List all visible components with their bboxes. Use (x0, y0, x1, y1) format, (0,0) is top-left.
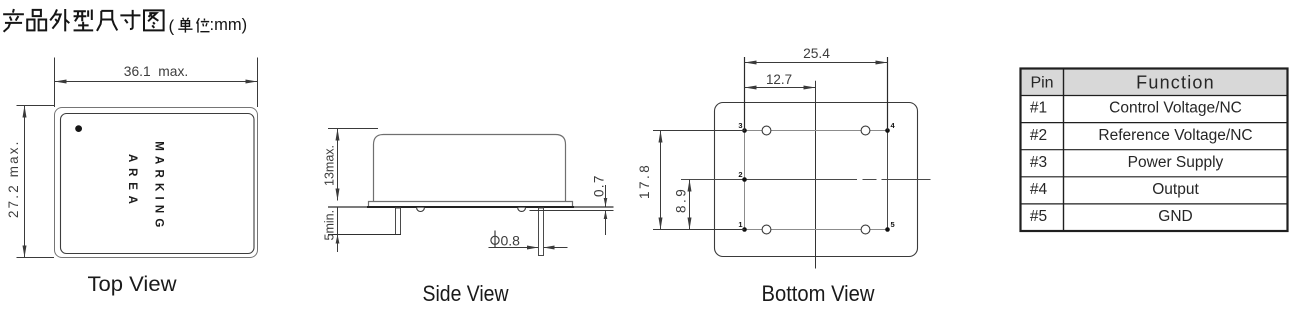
pin 1 dot (742, 227, 747, 232)
svg-text:#2: #2 (1030, 127, 1047, 144)
pin 4 dot (885, 128, 890, 133)
horizontal center line (681, 179, 857, 181)
pin row line bottom (pin1-pin5) (745, 229, 888, 231)
dim 0.7 standoff extension line (530, 210, 614, 212)
svg-text:Output: Output (1152, 181, 1199, 198)
dim text phi 0.8 (491, 236, 499, 244)
title: chinese heading 产品外型尺寸图 (3, 9, 24, 32)
dim 13 max dimension line (337, 129, 339, 201)
dim 27.2 max extension lines (17, 105, 55, 107)
svg-text:Power Supply: Power Supply (1128, 154, 1224, 171)
svg-text:Bottom View: Bottom View (762, 281, 875, 306)
svg-text:13max.: 13max. (323, 145, 337, 186)
svg-text:Top View: Top View (88, 272, 177, 296)
standoff circle top-left (762, 126, 771, 135)
svg-text:2: 2 (738, 170, 742, 179)
pin row line top (pin3-pin4) (745, 130, 888, 132)
dim 5 min dimension line (337, 207, 339, 252)
standoff bump right (518, 208, 526, 212)
dim 25.4 extension lines (744, 57, 746, 131)
pin column line left (pin3-pin1) (744, 131, 746, 230)
top view outer case outline (55, 108, 258, 258)
dim 8.9 dimension line (689, 180, 691, 230)
svg-text:36.1 max.: 36.1 max. (124, 64, 188, 79)
standoff bump left (417, 208, 425, 212)
svg-text:#5: #5 (1030, 208, 1047, 225)
dim 17.8 dimension line (660, 131, 662, 230)
side view right pin (539, 208, 544, 256)
svg-text:25.4: 25.4 (803, 46, 830, 61)
pin 3 dot (742, 128, 747, 133)
svg-text:Side View: Side View (423, 281, 509, 306)
bottom view case outline (715, 103, 918, 257)
dim 25.4 dimension line (745, 62, 888, 64)
pin 5 dot (885, 227, 890, 232)
svg-text:4: 4 (891, 121, 896, 130)
pin column line right (pin4-pin5) (887, 131, 889, 230)
dim 36.1 max dimension line (55, 81, 258, 83)
left pin bottom extension line (5 min) (328, 234, 401, 236)
top view inner case outline (61, 114, 255, 254)
vertical center line (815, 81, 817, 269)
dim 27.2 max dimension line (24, 106, 26, 258)
svg-text:Control Voltage/NC: Control Voltage/NC (1109, 100, 1242, 117)
dim 36.1 max extension lines (54, 58, 56, 108)
svg-text:Pin: Pin (1030, 75, 1053, 92)
standoff circle bottom-right (861, 225, 870, 234)
svg-text:MARKING: MARKING (152, 141, 164, 232)
svg-text:5: 5 (891, 220, 895, 229)
row extension lines left (653, 130, 745, 132)
side view body (cover) (374, 135, 566, 202)
svg-text:AREA: AREA (126, 154, 138, 210)
svg-text:(: ( (169, 17, 175, 36)
pin 1 index dot (75, 125, 82, 132)
svg-text:0.7: 0.7 (592, 174, 607, 197)
svg-text:1: 1 (738, 220, 742, 229)
svg-text:GND: GND (1158, 208, 1192, 225)
dim 0.7 dimension line with outside arrows (605, 185, 607, 207)
svg-text:#3: #3 (1030, 154, 1047, 171)
side view left pin (396, 208, 401, 235)
pin function table (1021, 69, 1288, 96)
svg-text:8.9: 8.9 (674, 187, 689, 213)
svg-text:Reference Voltage/NC: Reference Voltage/NC (1098, 127, 1252, 144)
svg-text:3: 3 (738, 121, 742, 130)
side view base flange (369, 202, 573, 207)
svg-text:27.2 max.: 27.2 max. (6, 139, 21, 218)
pin 2 dot (742, 177, 747, 182)
svg-text:#4: #4 (1030, 181, 1048, 198)
svg-text:5min.: 5min. (323, 210, 337, 241)
svg-text:12.7: 12.7 (766, 72, 792, 87)
standoff circle bottom-left (762, 225, 771, 234)
standoff circle top-right (861, 126, 870, 135)
svg-text::mm): :mm) (210, 16, 248, 34)
dim phi 0.8 leader line (489, 247, 539, 249)
seating plane line (328, 206, 614, 208)
dim 12.7 dimension line (815, 81, 817, 103)
svg-text:Function: Function (1136, 73, 1215, 93)
svg-text:0.8: 0.8 (501, 232, 521, 248)
side view body top extension line (328, 128, 378, 130)
svg-text:#1: #1 (1030, 100, 1047, 117)
svg-text:17.8: 17.8 (637, 163, 652, 199)
